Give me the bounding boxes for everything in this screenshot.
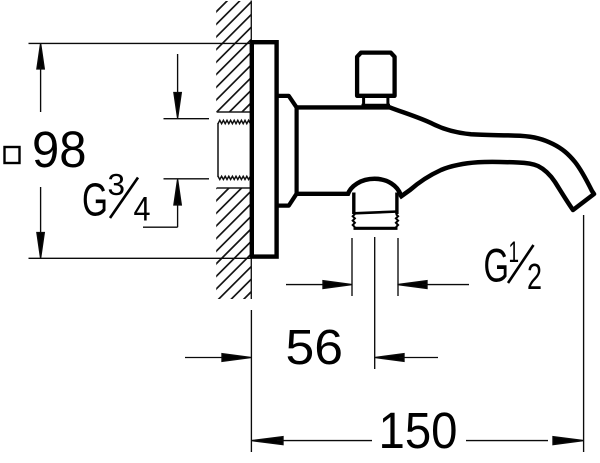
wall extension line [250, 310, 252, 452]
text G1/2 [484, 236, 543, 297]
svg-text:3: 3 [108, 167, 126, 202]
dimension 98 arrow down [37, 187, 44, 258]
pipe dim extension top [164, 118, 210, 120]
svg-text:4: 4 [134, 190, 151, 228]
pipe dim arrow up [143, 179, 181, 227]
threaded pipe G3/4 [218, 120, 250, 179]
svg-text:150: 150 [379, 402, 458, 458]
wall hatch edge lower [217, 187, 252, 189]
spout [390, 107, 594, 210]
dimension 98 extension bottom [29, 257, 252, 259]
body top line [297, 105, 391, 109]
svg-text:G: G [484, 239, 510, 292]
dimension 98 extension top [29, 42, 252, 44]
svg-text:1: 1 [509, 236, 520, 269]
outlet dome [348, 179, 401, 195]
pipe dim arrow down [174, 54, 181, 118]
svg-text:G: G [82, 174, 108, 226]
dim 150 line [252, 437, 584, 445]
G1/2 dim arrow right [286, 281, 352, 289]
flange plate [252, 42, 277, 256]
outlet extension left [351, 238, 353, 296]
dimension 98 arrow up [37, 43, 44, 112]
svg-text:56: 56 [286, 321, 344, 375]
wall face line [250, 1, 252, 300]
dim 56 arrow left [375, 354, 438, 362]
spout tip extension line [583, 215, 585, 452]
wall hatch edge upper [217, 111, 252, 113]
pipe dim extension bottom [164, 178, 210, 180]
outlet nut G1/2 [353, 193, 398, 229]
svg-text:2: 2 [527, 256, 542, 297]
escutcheon cone [277, 96, 297, 206]
outlet extension right [397, 238, 399, 296]
square symbol [5, 147, 20, 163]
wall hatch [0, 0, 543, 300]
body bottom line [297, 192, 350, 196]
valve stem [357, 53, 395, 96]
svg-text:98: 98 [32, 121, 87, 178]
G1/2 dim arrow left [398, 281, 470, 289]
valve neck [362, 97, 391, 106]
dim 56 arrow right [185, 354, 251, 362]
text G3/4 [82, 167, 151, 228]
outlet centerline [374, 237, 376, 369]
